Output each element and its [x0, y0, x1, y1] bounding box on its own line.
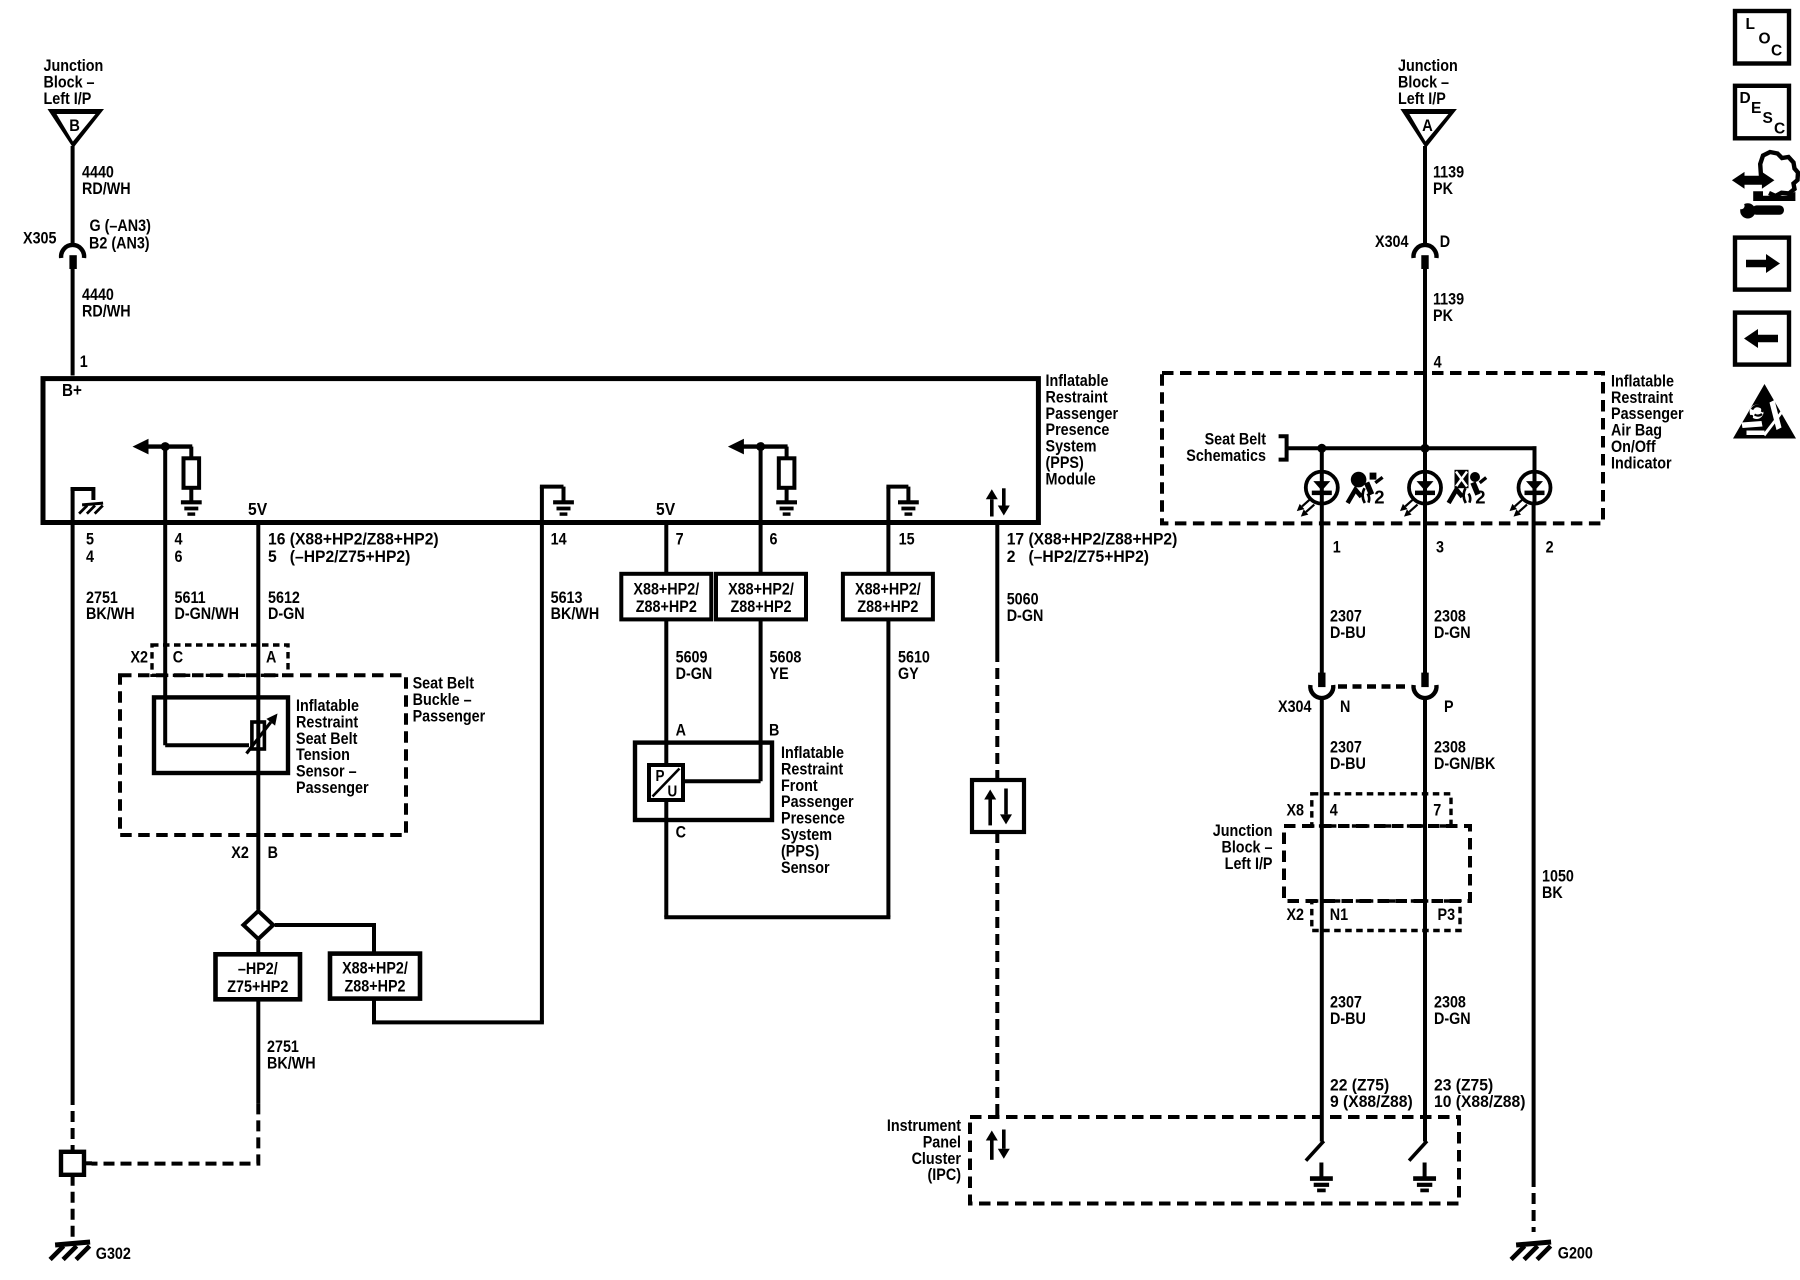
svg-text:D-GN: D-GN	[1434, 624, 1471, 642]
svg-text:1: 1	[80, 353, 88, 371]
svg-text:BK: BK	[1542, 884, 1563, 902]
svg-text:C: C	[1774, 121, 1785, 138]
svg-text:Z88+HP2: Z88+HP2	[636, 598, 697, 616]
svg-text:BK/WH: BK/WH	[86, 605, 135, 623]
svg-text:P: P	[656, 768, 665, 785]
svg-text:RD/WH: RD/WH	[82, 303, 131, 321]
svg-text:2: 2	[1374, 487, 1384, 508]
svg-text:BK/WH: BK/WH	[267, 1055, 316, 1073]
svg-text:A: A	[676, 721, 686, 739]
svg-text:D-GN: D-GN	[268, 605, 305, 623]
svg-text:X304: X304	[1375, 233, 1409, 251]
svg-text:P3: P3	[1438, 906, 1456, 924]
svg-text:6: 6	[770, 530, 778, 548]
svg-text:7: 7	[1433, 802, 1441, 820]
svg-text:10 (X88/Z88): 10 (X88/Z88)	[1434, 1093, 1525, 1111]
svg-text:P: P	[1444, 698, 1454, 716]
svg-text:N1: N1	[1330, 906, 1349, 924]
svg-text:D-BU: D-BU	[1330, 1010, 1366, 1028]
svg-text:RD/WH: RD/WH	[82, 180, 131, 198]
svg-text:B: B	[69, 117, 80, 135]
svg-text:D-GN: D-GN	[1434, 1010, 1471, 1028]
svg-text:X8: X8	[1286, 802, 1304, 820]
svg-text:Z88+HP2: Z88+HP2	[730, 598, 791, 616]
svg-text:D-BU: D-BU	[1330, 755, 1366, 773]
svg-text:2 (–HP2/Z75+HP2): 2 (–HP2/Z75+HP2)	[1007, 548, 1149, 566]
svg-text:X2: X2	[130, 648, 148, 666]
svg-text:X88+HP2/: X88+HP2/	[633, 581, 699, 599]
svg-text:PK: PK	[1433, 307, 1454, 325]
svg-text:Left I/P: Left I/P	[1225, 855, 1273, 873]
svg-text:5V: 5V	[656, 499, 676, 519]
svg-text:D-BU: D-BU	[1330, 624, 1366, 642]
svg-text:6: 6	[175, 548, 183, 566]
svg-text:X2: X2	[1286, 906, 1304, 924]
svg-text:O: O	[1759, 31, 1771, 48]
svg-text:Module: Module	[1046, 471, 1097, 489]
svg-text:Z75+HP2: Z75+HP2	[227, 978, 288, 996]
svg-text:17 (X88+HP2/Z88+HP2): 17 (X88+HP2/Z88+HP2)	[1007, 530, 1178, 548]
svg-text:L: L	[1746, 16, 1755, 33]
svg-text:D: D	[1740, 90, 1751, 107]
svg-text:G (–AN3): G (–AN3)	[90, 217, 151, 235]
svg-text:2: 2	[1546, 538, 1554, 556]
svg-text:G200: G200	[1558, 1245, 1593, 1263]
svg-text:B: B	[268, 844, 278, 862]
svg-text:4: 4	[1330, 802, 1338, 820]
svg-text:3: 3	[1436, 538, 1444, 556]
svg-text:G302: G302	[96, 1245, 131, 1263]
svg-text:Passenger: Passenger	[413, 708, 486, 726]
svg-text:(IPC): (IPC)	[928, 1166, 961, 1184]
svg-text:D-GN/WH: D-GN/WH	[175, 605, 240, 623]
svg-text:C: C	[1771, 43, 1782, 60]
svg-text:X88+HP2/: X88+HP2/	[342, 960, 408, 978]
svg-text:5V: 5V	[248, 499, 268, 519]
svg-text:Z88+HP2: Z88+HP2	[857, 598, 918, 616]
svg-text:Sensor: Sensor	[781, 859, 830, 877]
svg-text:X304: X304	[1278, 698, 1312, 716]
svg-text:B+: B+	[62, 381, 82, 400]
svg-text:X88+HP2/: X88+HP2/	[855, 581, 921, 599]
svg-text:4: 4	[86, 548, 94, 566]
svg-text:Schematics: Schematics	[1186, 447, 1266, 465]
svg-text:A: A	[266, 648, 276, 666]
svg-text:X2: X2	[231, 844, 249, 862]
svg-text:C: C	[676, 824, 686, 842]
svg-text:A: A	[1422, 117, 1433, 135]
svg-text:BK/WH: BK/WH	[551, 605, 600, 623]
svg-text:7: 7	[676, 530, 684, 548]
svg-text:16 (X88+HP2/Z88+HP2): 16 (X88+HP2/Z88+HP2)	[268, 530, 439, 548]
svg-text:X88+HP2/: X88+HP2/	[728, 581, 794, 599]
svg-text:4: 4	[1434, 353, 1442, 371]
svg-text:2: 2	[1475, 487, 1485, 508]
svg-text:D-GN: D-GN	[676, 665, 713, 683]
svg-text:D-GN: D-GN	[1007, 607, 1044, 625]
svg-text:N: N	[1340, 698, 1350, 716]
svg-text:14: 14	[551, 530, 567, 548]
svg-text:E: E	[1751, 100, 1761, 117]
svg-text:X305: X305	[23, 230, 57, 248]
svg-text:1: 1	[1333, 538, 1341, 556]
svg-text:C: C	[173, 648, 183, 666]
svg-text:D-GN/BK: D-GN/BK	[1434, 755, 1496, 773]
svg-text:S: S	[1763, 110, 1773, 127]
svg-text:U: U	[668, 783, 678, 800]
svg-text:Left I/P: Left I/P	[1398, 90, 1446, 108]
svg-text:YE: YE	[770, 665, 789, 683]
svg-text:Left I/P: Left I/P	[44, 90, 92, 108]
svg-text:15: 15	[899, 530, 915, 548]
svg-text:GY: GY	[898, 665, 919, 683]
svg-text:Passenger: Passenger	[296, 779, 369, 797]
svg-text:9 (X88/Z88): 9 (X88/Z88)	[1330, 1093, 1413, 1111]
svg-text:5: 5	[86, 530, 94, 548]
svg-text:PK: PK	[1433, 180, 1454, 198]
svg-text:Z88+HP2: Z88+HP2	[344, 978, 405, 996]
svg-text:–HP2/: –HP2/	[238, 960, 279, 978]
svg-text:5 (–HP2/Z75+HP2): 5 (–HP2/Z75+HP2)	[268, 547, 410, 565]
svg-text:Indicator: Indicator	[1611, 455, 1672, 473]
svg-text:B2 (AN3): B2 (AN3)	[89, 235, 150, 253]
svg-text:D: D	[1440, 233, 1450, 251]
svg-text:4: 4	[175, 530, 183, 548]
svg-text:B: B	[769, 721, 779, 739]
